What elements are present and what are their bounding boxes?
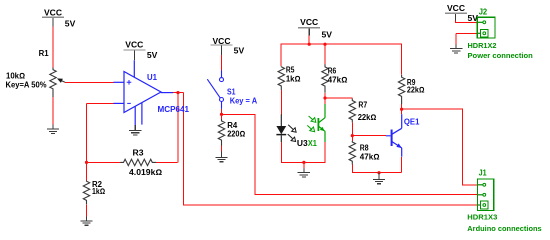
- svg-text:QE1: QE1: [404, 117, 420, 126]
- svg-text:VCC: VCC: [447, 4, 465, 13]
- svg-text:VCC: VCC: [213, 37, 231, 46]
- svg-text:5V: 5V: [322, 30, 333, 39]
- svg-text:VCC: VCC: [125, 40, 143, 49]
- svg-text:Power connection: Power connection: [468, 51, 534, 60]
- svg-text:22kΩ: 22kΩ: [407, 86, 425, 95]
- svg-text:22kΩ: 22kΩ: [358, 113, 377, 122]
- svg-text:S1: S1: [227, 88, 236, 97]
- svg-text:220Ω: 220Ω: [227, 129, 245, 138]
- svg-text:X1: X1: [308, 139, 317, 148]
- svg-text:R7: R7: [358, 100, 367, 109]
- svg-text:VCC: VCC: [44, 8, 62, 17]
- svg-text:R5: R5: [286, 66, 295, 75]
- svg-text:1kΩ: 1kΩ: [92, 187, 105, 196]
- svg-text:R3: R3: [133, 148, 145, 157]
- svg-text:1kΩ: 1kΩ: [286, 75, 301, 84]
- svg-text:VCC: VCC: [300, 18, 318, 27]
- svg-text:Key = A: Key = A: [230, 96, 258, 105]
- svg-text:Arduino connections: Arduino connections: [467, 224, 541, 233]
- svg-text:HDR1X2: HDR1X2: [468, 41, 497, 50]
- svg-text:Key=A 50%: Key=A 50%: [6, 81, 47, 90]
- svg-text:HDR1X3: HDR1X3: [467, 213, 497, 222]
- svg-text:J2: J2: [479, 8, 488, 17]
- svg-text:5V: 5V: [65, 19, 76, 28]
- svg-text:5V: 5V: [234, 47, 245, 56]
- svg-text:MCP641: MCP641: [158, 105, 190, 114]
- svg-text:R1: R1: [39, 49, 50, 58]
- svg-text:5V: 5V: [147, 51, 158, 60]
- svg-text:R8: R8: [360, 144, 369, 153]
- svg-text:4.019kΩ: 4.019kΩ: [129, 168, 162, 177]
- svg-text:U3: U3: [297, 139, 308, 148]
- svg-text:47kΩ: 47kΩ: [360, 153, 380, 162]
- svg-text:47kΩ: 47kΩ: [328, 75, 348, 84]
- svg-text:U1: U1: [147, 73, 158, 82]
- svg-text:10kΩ: 10kΩ: [6, 71, 25, 80]
- svg-text:J1: J1: [479, 168, 487, 177]
